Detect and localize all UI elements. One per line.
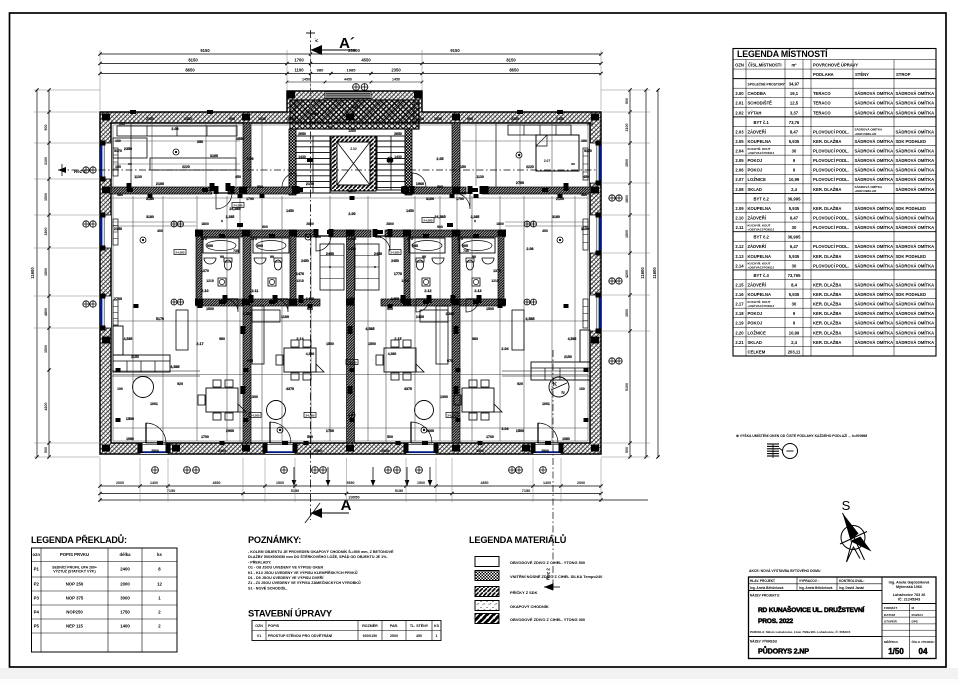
svg-text:SDK PODHLED: SDK PODHLED (896, 292, 926, 297)
interior wall H1 middle-left span (228, 187, 296, 194)
svg-text:10,99: 10,99 (789, 330, 800, 335)
svg-text:KONTROLOVAL:: KONTROLOVAL: (839, 579, 864, 583)
section line A vertical dash-dot (310, 30, 312, 520)
svg-text:2.16: 2.16 (735, 292, 744, 297)
interior wall H1 right span (482, 187, 590, 194)
svg-text:350: 350 (197, 140, 203, 144)
bottom extension lines (99, 458, 101, 502)
svg-text:2.14: 2.14 (296, 337, 304, 341)
sink C (432, 258, 444, 264)
svg-text:450: 450 (235, 175, 241, 179)
svg-text:LOŽNICE: LOŽNICE (748, 177, 767, 182)
wardrobe top-right room (508, 125, 571, 135)
svg-text:ks: ks (157, 552, 162, 557)
kitchen counters units 2/3 (252, 306, 264, 364)
svg-text:1100: 1100 (281, 315, 289, 319)
svg-text:2.12: 2.12 (735, 244, 744, 249)
svg-text:2,385: 2,385 (243, 312, 252, 316)
round table unit3 (415, 401, 434, 420)
top room door arc right (412, 173, 426, 187)
svg-text:NOP 375: NOP 375 (66, 595, 84, 600)
svg-text:2650: 2650 (394, 132, 402, 136)
bed top-right room (536, 135, 579, 171)
svg-text:800: 800 (257, 185, 263, 189)
svg-text:KOUPELNA: KOUPELNA (748, 292, 772, 297)
svg-text:3,37: 3,37 (790, 110, 799, 115)
svg-text:KER. DLAŽBA: KER. DLAŽBA (813, 311, 841, 316)
svg-text:11600: 11600 (640, 267, 645, 279)
svg-text:1800: 1800 (625, 195, 629, 203)
svg-text:2.11: 2.11 (736, 225, 745, 230)
svg-text:PODLAHA: PODLAHA (813, 72, 834, 77)
svg-text:735: 735 (463, 249, 469, 253)
kitchenette unit3 (420, 310, 448, 322)
table STAVEBNI UPRAVY (252, 621, 441, 641)
svg-text:24,585: 24,585 (423, 219, 433, 223)
svg-text:SÁDROVÁ OMÍTKA: SÁDROVÁ OMÍTKA (896, 263, 935, 268)
svg-text:1800: 1800 (201, 222, 209, 226)
top extension lines (99, 50, 101, 110)
svg-text:KER. DLAŽBA: KER. DLAŽBA (813, 330, 841, 335)
svg-text:PLOVOUCÍ PODL.: PLOVOUCÍ PODL. (813, 168, 849, 173)
dining table unit2 (284, 348, 316, 372)
svg-text:O1 - O8 JSOU UVEDENY VE V: O1 - O8 JSOU UVEDENY VE VÝPISU OKEN (248, 565, 323, 570)
svg-text:1215: 1215 (206, 279, 214, 283)
sink A (204, 258, 216, 264)
svg-text:S: S (842, 498, 851, 513)
stair flight left (296, 136, 330, 193)
svg-text:24,585: 24,585 (229, 207, 240, 211)
svg-text:HLAV. PROJEKT: HLAV. PROJEKT (750, 579, 775, 583)
washer D (472, 278, 480, 286)
svg-text:900: 900 (462, 244, 468, 248)
svg-text:Mýtenská 1066: Mýtenská 1066 (896, 585, 922, 589)
title block table (749, 577, 937, 659)
svg-text:SÁDROVÁ OMÍTKA: SÁDROVÁ OMÍTKA (896, 225, 935, 230)
svg-text:POKOJ: POKOJ (748, 311, 763, 316)
svg-text:2.05: 2.05 (735, 158, 744, 163)
svg-text:2150: 2150 (131, 355, 139, 359)
svg-text:2,385: 2,385 (446, 312, 455, 316)
svg-text:PLOVOUCÍ PODL.: PLOVOUCÍ PODL. (813, 158, 849, 163)
svg-text:S1 - NOVĚ SCHODIŠL.: S1 - NOVĚ SCHODIŠL. (248, 585, 287, 590)
svg-text:920: 920 (177, 382, 183, 386)
svg-text:2.03: 2.03 (735, 129, 744, 134)
svg-text:SÁDROVÁ OMÍTKA: SÁDROVÁ OMÍTKA (855, 263, 894, 268)
svg-text:xx: xx (128, 162, 132, 166)
svg-text:SÁDROVÁ OMÍTKA: SÁDROVÁ OMÍTKA (896, 187, 935, 192)
svg-text:8650: 8650 (185, 68, 195, 73)
core bottom landing line (296, 192, 405, 194)
bathtub bathroom D (459, 238, 495, 253)
round table unit2 (267, 401, 286, 420)
svg-text:SÁDROVÁ OMÍTKA: SÁDROVÁ OMÍTKA (855, 311, 894, 316)
svg-text:2.05: 2.05 (436, 157, 443, 161)
svg-text:34,97: 34,97 (789, 82, 800, 87)
svg-text:250: 250 (587, 122, 593, 126)
dining table unit3 (384, 348, 416, 372)
svg-text:4200: 4200 (625, 270, 629, 278)
inner socket symbol pairs (171, 221, 177, 227)
svg-text:1800: 1800 (44, 228, 48, 236)
svg-text:2.08: 2.08 (171, 127, 178, 131)
svg-text:2.13: 2.13 (474, 289, 481, 293)
electrical socket symbols left (83, 167, 89, 173)
svg-text:SÁDROVÁ OMÍTKA: SÁDROVÁ OMÍTKA (855, 292, 894, 297)
small dimension row above core (287, 81, 422, 83)
svg-text:3100: 3100 (426, 197, 434, 201)
svg-text:PLOVOUCÍ PODL.: PLOVOUCÍ PODL. (813, 215, 849, 220)
dimension chain bottom line 2 (100, 493, 601, 495)
svg-text:PŘÍČKY Z SDK: PŘÍČKY Z SDK (510, 590, 538, 595)
svg-text:POKOJ: POKOJ (748, 168, 763, 173)
svg-text:150: 150 (460, 165, 466, 169)
svg-text:OZN: OZN (735, 62, 744, 67)
svg-text:2000: 2000 (577, 481, 585, 485)
entrance door arc D4 (538, 423, 558, 443)
svg-text:2.10: 2.10 (735, 215, 744, 220)
svg-text:2150: 2150 (564, 355, 572, 359)
svg-text:980: 980 (317, 68, 324, 73)
electrical socket symbols right (609, 195, 615, 201)
svg-text:KER. DLAŽBA: KER. DLAŽBA (813, 139, 841, 144)
svg-text:2.15: 2.15 (735, 282, 744, 287)
radiators under windows (113, 148, 118, 176)
extra switch blobs pass3 (148, 194, 153, 198)
svg-text:Ing. Aneta Gajdošíková: Ing. Aneta Gajdošíková (889, 581, 931, 585)
svg-text:2.01: 2.01 (735, 101, 744, 106)
svg-text:90: 90 (220, 255, 224, 259)
svg-text:2.09: 2.09 (246, 157, 253, 161)
svg-text:1325: 1325 (258, 117, 266, 121)
wardrobe strips in living rooms (176, 310, 188, 350)
dimension chain top line 2 (100, 63, 601, 65)
door D3 bottom wall (406, 443, 436, 454)
svg-text:2000: 2000 (120, 581, 130, 586)
window W4 right wall (590, 143, 601, 183)
svg-text:900: 900 (412, 244, 418, 248)
svg-text:1150: 1150 (581, 227, 589, 231)
svg-text:1450: 1450 (406, 209, 414, 213)
svg-text:24,585: 24,585 (434, 215, 445, 219)
svg-text:VÝZTUŽ (STATICKÝ VÝP.): VÝZTUŽ (STATICKÝ VÝP.) (53, 569, 95, 574)
svg-text:9150: 9150 (200, 48, 210, 53)
svg-text:POPIS: POPIS (268, 624, 280, 628)
svg-text:PLOVOUCÍ PODL.: PLOVOUCÍ PODL. (813, 225, 849, 230)
svg-text:DPS: DPS (912, 620, 918, 624)
svg-text:1430: 1430 (394, 155, 402, 159)
washer C (422, 278, 430, 286)
svg-text:1400: 1400 (543, 481, 551, 485)
svg-text:73,76: 73,76 (789, 120, 800, 125)
window W6 right wall (590, 295, 601, 331)
svg-text:1790: 1790 (456, 197, 464, 201)
level marks (small filled) (232, 203, 244, 208)
svg-text:SÁDROVÁ OMÍTKA: SÁDROVÁ OMÍTKA (855, 282, 894, 287)
dimension chain right segments (629, 90, 631, 457)
svg-text:9150: 9150 (450, 48, 460, 53)
door D1 bottom wall (140, 443, 168, 454)
svg-text:NOP250: NOP250 (66, 609, 83, 614)
svg-text:24,585: 24,585 (447, 414, 457, 418)
svg-text:1300: 1300 (250, 395, 258, 399)
door D4 bottom wall (533, 443, 561, 454)
svg-text:2250: 2250 (146, 117, 154, 121)
svg-text:SÁDROVÁ OMÍTKA: SÁDROVÁ OMÍTKA (896, 177, 935, 182)
toilet A (224, 258, 232, 262)
svg-text:⊕ VÝŠKA UMÍSTĚNÍ OKEN OD ČIST: ⊕ VÝŠKA UMÍSTĚNÍ OKEN OD ČISTÉ PODLAHY K… (736, 433, 867, 438)
wardrobe top-left room (117, 126, 237, 136)
svg-text:CHODBA: CHODBA (748, 91, 766, 96)
svg-text:4370: 4370 (404, 387, 412, 391)
door jamb marks (138, 443, 143, 453)
svg-text:2900: 2900 (226, 429, 234, 433)
svg-text:3180: 3180 (146, 197, 154, 201)
svg-text:SÁDROVÁ OMÍTKA: SÁDROVÁ OMÍTKA (855, 225, 894, 230)
svg-text:SKLAD: SKLAD (748, 340, 762, 345)
svg-text:1500: 1500 (368, 342, 376, 346)
svg-text:1325: 1325 (434, 117, 442, 121)
svg-text:STUPEŇ: STUPEŇ (884, 619, 897, 624)
svg-text:2800: 2800 (306, 222, 314, 226)
svg-text:K: K (553, 382, 557, 388)
svg-text:K1 - K13 JSOU UVEDENY VE VÝ: K1 - K13 JSOU UVEDENY VE VÝPISU KLEMPÍŘS… (248, 570, 358, 575)
svg-text:KER. DLAŽBA: KER. DLAŽBA (813, 254, 841, 259)
svg-text:30: 30 (792, 302, 797, 307)
svg-text:Luhačovice 763 26: Luhačovice 763 26 (893, 593, 926, 597)
hall wardrobes near centre wall (320, 244, 344, 290)
svg-text:D1 - D9 JSOU UVEDENY VE V: D1 - D9 JSOU UVEDENY VE VÝPISU DVEŘÍ (248, 575, 324, 580)
svg-text:4450: 4450 (344, 78, 352, 82)
svg-text:STĚNY: STĚNY (855, 72, 869, 77)
svg-text:2220: 2220 (526, 165, 534, 169)
svg-text:900: 900 (437, 225, 443, 229)
material swatch 5 (475, 614, 499, 624)
svg-text:4,585: 4,585 (568, 337, 577, 341)
svg-text:1600: 1600 (286, 117, 294, 121)
svg-text:2450: 2450 (326, 252, 334, 256)
svg-text:2250: 2250 (511, 117, 519, 121)
svg-text:500: 500 (44, 125, 48, 131)
svg-text:2000: 2000 (381, 449, 389, 453)
bathroom cluster right outer wall (498, 231, 504, 304)
stair flight right (377, 136, 405, 190)
svg-text:10,99: 10,99 (789, 177, 800, 182)
window W2 left wall (100, 215, 111, 248)
svg-text:KOUPELNA: KOUPELNA (748, 254, 772, 259)
svg-text:SDK PODHLED: SDK PODHLED (896, 206, 926, 211)
svg-text:2.08: 2.08 (735, 187, 744, 192)
svg-text:150: 150 (579, 387, 585, 391)
interior wall H2 bathroom cluster top (196, 230, 316, 237)
svg-text:2.06: 2.06 (735, 168, 744, 173)
toilet D (466, 258, 474, 262)
svg-text:12: 12 (157, 581, 162, 586)
svg-text:1130: 1130 (134, 175, 142, 179)
svg-text:2450: 2450 (301, 259, 309, 263)
svg-text:V1: V1 (257, 634, 261, 638)
svg-text:2400: 2400 (120, 567, 130, 572)
svg-text:PLOVOUCÍ PODL.: PLOVOUCÍ PODL. (813, 177, 849, 182)
svg-text:500: 500 (387, 435, 393, 439)
svg-text:1500: 1500 (206, 307, 214, 311)
svg-text:PROSTUP STĚNOU PRO ODVĚTRÁNÍ: PROSTUP STĚNOU PRO ODVĚTRÁNÍ (268, 633, 333, 638)
window W1 left wall (100, 143, 111, 179)
svg-text:2.06: 2.06 (526, 247, 533, 251)
dimension chain right outermost (657, 90, 659, 457)
svg-text:SÁDROVÁ OMÍTKA: SÁDROVÁ OMÍTKA (896, 149, 935, 154)
svg-text:OZN: OZN (255, 624, 263, 628)
svg-text:2,4: 2,4 (791, 340, 797, 345)
svg-text:2150: 2150 (114, 227, 122, 231)
svg-text:1400: 1400 (416, 315, 424, 319)
svg-text:2.04: 2.04 (501, 347, 509, 351)
svg-text:150: 150 (349, 297, 355, 301)
svg-text:SÁDROVÁ OMÍTKA: SÁDROVÁ OMÍTKA (896, 215, 935, 220)
svg-text:24,585: 24,585 (390, 251, 400, 255)
svg-text:2,4: 2,4 (791, 187, 797, 192)
material swatch 2 (475, 571, 499, 581)
svg-text:POZNÁMKY:: POZNÁMKY: (248, 534, 301, 545)
svg-text:ZÁDVEŘÍ: ZÁDVEŘÍ (748, 282, 767, 287)
svg-text:4,585: 4,585 (365, 327, 374, 331)
svg-text:90: 90 (270, 255, 274, 259)
svg-text:2.17: 2.17 (735, 302, 744, 307)
svg-text:8150: 8150 (188, 58, 198, 63)
svg-text:SÁDROVÁ OMÍTKA: SÁDROVÁ OMÍTKA (855, 139, 894, 144)
svg-text:DLAŽBY 500X500X50 mm DO ŠTĚRKO: DLAŽBY 500X500X50 mm DO ŠTĚRKOVÉHO LOŽE,… (248, 554, 387, 559)
svg-text:KER. DLAŽBA: KER. DLAŽBA (813, 292, 841, 297)
svg-text:19,1: 19,1 (790, 91, 799, 96)
svg-text:SÁDROVÁ OMÍTKA: SÁDROVÁ OMÍTKA (855, 321, 894, 326)
svg-text:735: 735 (233, 249, 239, 253)
svg-text:LEGENDA PŘEKLADŮ:: LEGENDA PŘEKLADŮ: (31, 534, 127, 545)
desk top-left room (150, 158, 236, 170)
svg-text:1500: 1500 (276, 481, 284, 485)
svg-text:2.13: 2.13 (735, 254, 744, 259)
svg-text:150: 150 (115, 139, 121, 143)
svg-text:1470: 1470 (296, 272, 304, 276)
svg-text:20600: 20600 (348, 48, 360, 53)
svg-text:BYT č.2: BYT č.2 (754, 235, 770, 240)
svg-text:SÁDROVÁ OMÍTKA: SÁDROVÁ OMÍTKA (855, 110, 894, 115)
svg-text:NOP 250: NOP 250 (66, 581, 84, 586)
svg-text:3100: 3100 (625, 124, 629, 132)
svg-text:x: x (329, 265, 331, 269)
svg-text:1600: 1600 (416, 117, 424, 121)
svg-text:+OBÝVACÍ POKOJ: +OBÝVACÍ POKOJ (748, 265, 775, 270)
svg-text:KOUPELNA: KOUPELNA (748, 139, 772, 144)
left extension lines (34, 89, 100, 91)
svg-text:TL. STĚNY: TL. STĚNY (410, 623, 429, 628)
svg-text:3000: 3000 (120, 595, 130, 600)
svg-text:1980: 1980 (562, 437, 570, 441)
svg-text:2450: 2450 (391, 259, 399, 263)
svg-text:900: 900 (257, 244, 263, 248)
svg-text:575: 575 (201, 237, 207, 241)
svg-text:A´: A´ (314, 37, 319, 42)
svg-text:SÁDROVÁ OMÍTKA: SÁDROVÁ OMÍTKA (855, 302, 894, 307)
svg-text:2.07: 2.07 (735, 177, 744, 182)
svg-text:SÁDROVÁ OMÍTKA: SÁDROVÁ OMÍTKA (855, 91, 894, 96)
svg-text:3550: 3550 (236, 137, 244, 141)
svg-text:PLOVOUCÍ PODL.: PLOVOUCÍ PODL. (813, 129, 849, 134)
window W5 right wall (590, 215, 601, 253)
svg-text:1700: 1700 (326, 429, 334, 433)
svg-text:8,4: 8,4 (791, 282, 797, 287)
svg-text:4,585: 4,585 (170, 365, 179, 369)
svg-text:2,385: 2,385 (348, 237, 357, 241)
svg-text:1370: 1370 (493, 269, 501, 273)
svg-text:1215: 1215 (296, 279, 304, 283)
svg-text:SÁDROVÁ OMÍTKA: SÁDROVÁ OMÍTKA (855, 177, 894, 182)
interior wall H1 below top rooms (left span) (111, 187, 212, 194)
svg-text:450: 450 (416, 634, 422, 638)
svg-text:SCHODIŠTĚ: SCHODIŠTĚ (748, 101, 773, 106)
svg-text:x: x (374, 265, 376, 269)
svg-text:575: 575 (407, 237, 413, 241)
svg-text:6,47: 6,47 (790, 215, 799, 220)
svg-text:SÁDROVÁ OMÍTKA: SÁDROVÁ OMÍTKA (855, 101, 894, 106)
dining table unit4 (462, 388, 494, 412)
svg-text:5550: 5550 (347, 481, 355, 485)
svg-text:AKCE: NOVÁ VÝSTAVBA BYTOVÉHO: AKCE: NOVÁ VÝSTAVBA BYTOVÉHO DOMU (749, 568, 821, 573)
svg-text:2.05: 2.05 (735, 139, 744, 144)
svg-text:KS: KS (434, 624, 440, 628)
svg-text:P4: P4 (34, 609, 40, 614)
svg-text:- KOLEM OBJEKTU JE PROVEDEN OK: - KOLEM OBJEKTU JE PROVEDEN OKAPOVÝ CHOD… (248, 549, 394, 554)
svg-text:TERACO: TERACO (813, 101, 831, 106)
dimension chain bottom overall (100, 499, 648, 501)
svg-text:6,47: 6,47 (790, 244, 799, 249)
svg-text:2800: 2800 (541, 449, 549, 453)
svg-text:90: 90 (472, 255, 476, 259)
svg-text:MĚŘÍTKO: MĚŘÍTKO (884, 639, 898, 644)
svg-text:4370: 4370 (286, 387, 294, 391)
svg-text:1790: 1790 (246, 197, 254, 201)
svg-text:TERACO: TERACO (813, 110, 831, 115)
svg-text:LEGENDA MATERIÁLŮ: LEGENDA MATERIÁLŮ (469, 534, 567, 545)
svg-text:3100: 3100 (210, 154, 218, 158)
svg-text:+KER.OBKLAD: +KER.OBKLAD (855, 132, 878, 136)
svg-text:36,995: 36,995 (788, 235, 801, 240)
room outline thin lines (113, 124, 588, 126)
svg-text:23050: 23050 (348, 495, 360, 500)
svg-text:1770: 1770 (394, 272, 402, 276)
bottom load arrows (293, 467, 295, 483)
svg-text:1980: 1980 (126, 437, 134, 441)
svg-text:1985: 1985 (347, 68, 357, 73)
svg-text:8150: 8150 (506, 58, 516, 63)
sofa unit4 (531, 362, 590, 380)
svg-text:P2: P2 (34, 581, 40, 586)
svg-text:975: 975 (247, 359, 253, 363)
svg-text:KER. DLAŽBA: KER. DLAŽBA (813, 321, 841, 326)
svg-text:VYPRACOV. :: VYPRACOV. : (799, 579, 819, 583)
svg-text:1700: 1700 (486, 435, 494, 439)
svg-text:980: 980 (472, 337, 478, 341)
svg-text:POPIS PRVKU: POPIS PRVKU (60, 552, 89, 557)
svg-text:SÁDROVÁ OMÍTKA: SÁDROVÁ OMÍTKA (896, 101, 935, 106)
svg-text:Ing. Aneta Běhůnková: Ing. Aneta Běhůnková (750, 586, 784, 590)
svg-text:3.04: 3.04 (501, 427, 509, 431)
svg-text:2,385: 2,385 (226, 215, 235, 219)
door leaves (145, 423, 147, 443)
corridor door arc right (454, 193, 470, 209)
svg-text:1500: 1500 (44, 193, 48, 201)
svg-text:203,11: 203,11 (788, 349, 801, 354)
svg-text:3180: 3180 (552, 215, 560, 219)
